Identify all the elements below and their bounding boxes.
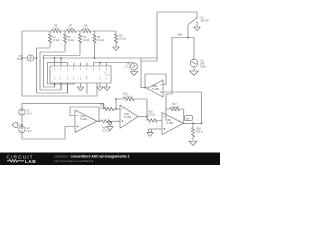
svg-text:10 kΩ: 10 kΩ	[68, 38, 75, 42]
svg-text:10 V: 10 V	[27, 112, 33, 116]
svg-text:TL082: TL082	[166, 121, 174, 125]
wire U5B positive feedback loop	[145, 74, 166, 88]
label U1	[85, 72, 110, 79]
clock source V5	[27, 55, 33, 61]
svg-text:SW-SP: SW-SP	[201, 19, 210, 23]
wire U6A feedback left	[116, 99, 124, 109]
resistor R3	[78, 31, 81, 55]
switch SW1 contacts	[196, 17, 198, 23]
svg-text:converter / convertitore ADC a: converter / convertitore ADC ad inseguim…	[54, 155, 130, 159]
svg-text:10 kΩ: 10 kΩ	[97, 38, 104, 42]
wire clock leads	[22, 57, 37, 59]
logo resistor zigzag	[7, 159, 24, 162]
footer bar	[0, 153, 220, 166]
component value labels	[17, 16, 209, 134]
IC U1 counter body	[50, 66, 111, 83]
wire ladder top bus	[22, 30, 116, 32]
svg-text:10 kΩ: 10 kΩ	[172, 105, 179, 109]
switch SW1 lever	[188, 18, 196, 25]
ground switch	[194, 27, 201, 31]
svg-text:11.5 kΩ: 11.5 kΩ	[102, 129, 111, 133]
wire U5A feedback	[70, 107, 99, 121]
resistor R2	[63, 31, 66, 52]
ground R18	[189, 141, 197, 145]
wire stair level 1	[37, 48, 68, 93]
wire outer loop	[22, 83, 97, 96]
source V3 sine	[190, 59, 198, 67]
junction dots	[21, 37, 202, 126]
wire V3 to ground	[193, 67, 195, 71]
resistor R16	[147, 119, 162, 122]
node flag out	[184, 116, 192, 121]
svg-text:500 Ω: 500 Ω	[196, 130, 203, 134]
op-amp U5A	[75, 110, 97, 132]
node flag ground U6A plus	[108, 121, 111, 124]
node flag ground U6B plus	[152, 128, 162, 130]
ground IC pin B	[97, 87, 103, 91]
svg-text:C4: C4	[85, 76, 89, 78]
svg-text:TL082: TL082	[152, 87, 160, 91]
svg-text:10 kΩ: 10 kΩ	[148, 113, 155, 117]
op-amp U6B comparator	[162, 113, 184, 135]
source VTH	[131, 63, 138, 70]
ground IC pin C	[104, 87, 110, 91]
ground U6B plus	[147, 133, 154, 137]
svg-text:out: out	[186, 117, 190, 121]
wire stair level 3	[44, 56, 81, 88]
switch SW1 pole	[187, 25, 189, 38]
resistor R18	[191, 123, 194, 140]
resistor R15	[124, 97, 147, 116]
wire switch throw ground	[196, 24, 198, 28]
svg-text:1 kHz: 1 kHz	[200, 65, 207, 69]
wire long bus to switch	[43, 12, 198, 58]
wire V2 bottom	[22, 127, 75, 140]
wire left rail	[21, 31, 23, 96]
wire R17 feedback	[166, 109, 170, 121]
svg-text:10 kΩ: 10 kΩ	[53, 38, 60, 42]
wire stair level 2	[40, 52, 65, 90]
svg-text:5 kΩ: 5 kΩ	[53, 27, 58, 31]
op-amp U6A	[120, 105, 138, 128]
op-amp U5B (points left)	[147, 80, 163, 97]
IC U1 bottom pins	[55, 83, 107, 94]
svg-text:TL082: TL082	[124, 115, 132, 119]
resistor R7	[67, 29, 76, 32]
resistor R8	[82, 29, 91, 32]
wire U6B output	[184, 122, 202, 124]
ground V3	[190, 71, 199, 75]
resistor R14	[101, 120, 120, 123]
resistor R5	[114, 31, 117, 47]
svg-text:TL082: TL082	[80, 117, 88, 121]
wire U5B inverting to comparator output	[163, 92, 202, 123]
svg-text:10 kΩ: 10 kΩ	[83, 38, 90, 42]
wire stair level 4 drop	[48, 62, 75, 84]
svg-text:10 V: 10 V	[27, 129, 33, 133]
svg-text:11.5 kΩ: 11.5 kΩ	[123, 95, 132, 99]
node flag mid supply	[12, 123, 22, 128]
wire U6A output	[138, 117, 147, 121]
svg-text:10 kΩ: 10 kΩ	[100, 106, 107, 110]
svg-text:http://circuitlab.com/c86d2e5: http://circuitlab.com/c86d2e5	[54, 159, 94, 163]
ground under R5	[113, 47, 119, 51]
resistor R6	[52, 29, 61, 32]
wire V3 input to U6B	[166, 38, 194, 110]
svg-text:5 kΩ: 5 kΩ	[83, 27, 88, 31]
wire jog to U5B output	[141, 58, 157, 88]
resistor R4	[93, 31, 96, 58]
IC U1 pin name marks	[54, 68, 106, 80]
resistor R13	[104, 107, 121, 110]
svg-text:7419: 7419	[104, 74, 110, 76]
IC U1 top pins	[55, 58, 107, 66]
source V2	[19, 126, 25, 132]
wire supply V1 rail	[22, 103, 104, 109]
wire counter to VTH	[94, 62, 135, 64]
resistor R1	[48, 31, 51, 48]
ground IC pin A	[77, 87, 83, 91]
ground VTH	[130, 72, 137, 76]
resistor R17	[170, 107, 184, 123]
wire V1 to V2	[21, 115, 23, 126]
svg-text:2.5 V: 2.5 V	[124, 65, 130, 69]
svg-text:LAB: LAB	[25, 159, 36, 165]
svg-text:10 kΩ: 10 kΩ	[119, 37, 126, 41]
source V1	[19, 109, 25, 115]
svg-text:5 kΩ: 5 kΩ	[68, 27, 73, 31]
wire VTH to ground	[133, 70, 135, 72]
wire U5A output	[97, 120, 101, 122]
svg-text:CLK: CLK	[17, 57, 22, 61]
ground U6A plus	[107, 127, 114, 131]
svg-text:SW1: SW1	[177, 33, 183, 37]
